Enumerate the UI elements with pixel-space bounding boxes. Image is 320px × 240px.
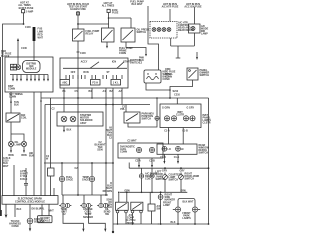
blower box bbox=[189, 24, 201, 33]
svg-text:ASSY: ASSY bbox=[80, 122, 87, 125]
label set timing connector bbox=[9, 93, 23, 99]
svg-text:B: B bbox=[13, 68, 15, 71]
lamp 2 bbox=[157, 28, 161, 32]
svg-text:PPL: PPL bbox=[120, 108, 125, 111]
svg-text:CLSTR: CLSTR bbox=[176, 114, 184, 117]
resistor block bbox=[48, 98, 55, 196]
label above key module bbox=[139, 57, 144, 65]
nodes y195 bbox=[77, 194, 107, 196]
label lamp A bbox=[169, 174, 183, 182]
LEFT x113 column labels bbox=[103, 182, 113, 193]
svg-text:LAMPS: LAMPS bbox=[182, 217, 191, 220]
label fuel pump prime bbox=[119, 47, 133, 55]
svg-text:SWITCH: SWITCH bbox=[137, 31, 147, 34]
cluster lamp 2 bbox=[171, 116, 176, 121]
svg-text:G GRN: G GRN bbox=[162, 107, 170, 110]
diag terminal 1 bbox=[136, 147, 141, 152]
label left of switch bbox=[165, 68, 176, 79]
wire bus y224 bbox=[113, 223, 159, 225]
ac relay box 1 bbox=[116, 202, 129, 213]
node bbox=[160, 191, 162, 193]
wire bbox=[149, 192, 151, 204]
wire bbox=[108, 13, 110, 29]
side marker circle C bbox=[158, 192, 163, 199]
label below lamps bbox=[8, 154, 26, 157]
ignition coil box bbox=[6, 113, 20, 122]
wires from relays to bus bbox=[118, 211, 152, 224]
terminal label box 2 bbox=[91, 80, 101, 86]
label oil pressure switch bbox=[137, 29, 150, 35]
svg-text:C1-B: C1-B bbox=[160, 156, 166, 159]
node bbox=[77, 23, 79, 25]
arrow bbox=[104, 229, 106, 232]
nodes bbox=[141, 192, 143, 194]
svg-text:C210: C210 bbox=[174, 93, 180, 96]
label HEI bbox=[29, 152, 34, 158]
lamp gen bbox=[21, 141, 26, 146]
dist connector box bbox=[38, 216, 53, 223]
svg-text:BLK: BLK bbox=[17, 208, 22, 211]
svg-text:IGN: IGN bbox=[112, 60, 117, 63]
label dimmer bbox=[200, 69, 210, 77]
svg-text:WHT: WHT bbox=[38, 37, 44, 40]
wire bbox=[160, 199, 162, 224]
label ac clutch diode bbox=[126, 214, 136, 225]
label HOT IN RUN bbox=[67, 3, 89, 11]
pin labels below switch bbox=[62, 90, 122, 93]
wire bbox=[10, 92, 12, 113]
wire into switch bbox=[125, 105, 127, 113]
label below circle C bbox=[163, 202, 172, 208]
wire bbox=[77, 101, 79, 195]
svg-text:ALL TIMES: ALL TIMES bbox=[102, 5, 115, 8]
svg-text:PPL: PPL bbox=[40, 208, 45, 211]
terminal label box 3 bbox=[111, 80, 121, 86]
ignition module blob bbox=[23, 61, 41, 73]
wire bbox=[194, 212, 196, 224]
relay circle 1 bbox=[139, 168, 143, 192]
wire bbox=[61, 182, 63, 195]
oil pressure switch box bbox=[121, 28, 135, 42]
labels below diag box bbox=[135, 160, 155, 163]
svg-text:SWITCH: SWITCH bbox=[199, 152, 209, 155]
nodes y224 bbox=[117, 223, 134, 225]
svg-text:BLK: BLK bbox=[29, 155, 34, 158]
label HOT AT ALL TIMES bbox=[18, 1, 34, 9]
wire bbox=[112, 88, 114, 224]
svg-text:COIL: COIL bbox=[21, 117, 27, 120]
label right of blower box bbox=[201, 25, 209, 36]
svg-text:BLK: BLK bbox=[107, 206, 112, 209]
label DIST bbox=[8, 85, 15, 91]
wire below switch bbox=[126, 42, 146, 54]
gauge circle left of cluster bbox=[155, 116, 159, 120]
starter motor box bbox=[57, 112, 103, 126]
svg-text:ST: ST bbox=[106, 71, 110, 74]
svg-text:CONN: CONN bbox=[8, 88, 15, 91]
lamp oil pressure bbox=[8, 141, 13, 146]
svg-text:LAMP: LAMP bbox=[163, 204, 170, 207]
svg-text:LAMP: LAMP bbox=[201, 33, 208, 36]
svg-text:C2 WHT: C2 WHT bbox=[127, 140, 137, 143]
solenoid coil circle 2 bbox=[70, 116, 76, 122]
label inside distributor bbox=[11, 64, 17, 70]
nodes on y163 bbox=[61, 162, 114, 164]
lamp A bbox=[163, 173, 168, 180]
dimmer switch box bbox=[187, 68, 198, 80]
svg-text:J K L: J K L bbox=[113, 82, 119, 85]
svg-text:WHT: WHT bbox=[48, 210, 54, 213]
mid labels bbox=[71, 71, 110, 74]
wire + arrow defog 2 bbox=[177, 154, 179, 161]
wire bbox=[193, 7, 195, 24]
wire bbox=[105, 88, 107, 195]
svg-text:BLK: BLK bbox=[14, 104, 19, 107]
svg-text:DK GRN: DK GRN bbox=[103, 190, 113, 193]
svg-text:BLK: BLK bbox=[171, 221, 176, 224]
svg-text:GAGE: GAGE bbox=[66, 179, 73, 182]
wire below knock bbox=[29, 224, 31, 228]
svg-text:SWITCH: SWITCH bbox=[185, 178, 195, 181]
wire bbox=[23, 13, 25, 24]
label between park lamps bbox=[182, 212, 191, 220]
svg-text:CONN: CONN bbox=[9, 96, 16, 99]
wire bbox=[91, 88, 93, 98]
wire stub bbox=[128, 163, 130, 169]
label lamp B bbox=[185, 173, 200, 181]
distributor assembly box bbox=[5, 57, 53, 92]
svg-text:LAMP: LAMP bbox=[15, 144, 22, 147]
label under circle 1 bbox=[61, 208, 68, 216]
switch arm diagonals bbox=[90, 62, 124, 69]
pickup coil circle bbox=[16, 65, 21, 70]
lamp 4 bbox=[167, 28, 171, 32]
labels below defogger bbox=[160, 156, 179, 159]
svg-text:OFF: OFF bbox=[71, 71, 76, 74]
fuel pump relay box bbox=[73, 29, 85, 41]
label relay circle 2 bbox=[156, 171, 166, 182]
svg-text:5 AMP: 5 AMP bbox=[26, 10, 34, 13]
label wire colors mid bbox=[20, 170, 28, 181]
wire gnd drop bbox=[5, 204, 7, 214]
wire right rail top bbox=[148, 6, 159, 70]
wire with capacitor ticks bbox=[24, 168, 28, 196]
diagnostic connector box bbox=[118, 143, 163, 158]
park neutral switch box bbox=[124, 112, 140, 123]
label right of cluster bbox=[203, 114, 212, 125]
wire bus bbox=[109, 17, 132, 19]
svg-text:GRN: GRN bbox=[180, 189, 186, 192]
wire bus y195 bbox=[62, 194, 108, 196]
fuse ECM B bbox=[22, 10, 34, 14]
wire with up arrow bbox=[17, 40, 19, 65]
label relay circle 1 bbox=[145, 173, 157, 181]
ground bbox=[29, 228, 31, 231]
junction nodes on bus bbox=[63, 97, 158, 105]
svg-text:HI: HI bbox=[181, 148, 184, 151]
label mid C2 block bbox=[94, 141, 106, 152]
inner bus bbox=[63, 67, 127, 69]
splice circle pair 2 bbox=[80, 195, 92, 208]
page edge blob bbox=[0, 210, 2, 216]
splice arrow bbox=[10, 100, 12, 103]
svg-text:FUSE: FUSE bbox=[112, 11, 119, 14]
wire with terminator bbox=[177, 46, 179, 58]
wire bus y163 bbox=[44, 162, 113, 164]
arrow stub bbox=[196, 52, 198, 56]
arrow bbox=[82, 229, 84, 232]
svg-text:WHT: WHT bbox=[3, 165, 9, 168]
wire drop 5 bbox=[48, 204, 50, 216]
label right of dashed box bbox=[178, 22, 194, 33]
wire + arrow below gen lamp bbox=[23, 147, 25, 151]
wire bbox=[177, 212, 179, 224]
svg-text:RELAY: RELAY bbox=[86, 33, 94, 36]
wire bbox=[91, 163, 93, 176]
cluster lamp 3 bbox=[183, 116, 188, 121]
wire bbox=[176, 98, 178, 104]
knock sensor circle bbox=[27, 218, 33, 224]
inner bus of distributor bbox=[10, 74, 48, 76]
blower lamp bbox=[191, 27, 195, 31]
wire bus y224 bbox=[158, 223, 209, 225]
wire bbox=[193, 33, 195, 46]
svg-text:C1-A: C1-A bbox=[164, 129, 170, 132]
svg-text:BLK WHT: BLK WHT bbox=[131, 3, 143, 6]
wire from dimmer bbox=[170, 80, 193, 98]
label AC/HTR fuse bbox=[162, 3, 179, 9]
node bbox=[169, 97, 171, 99]
svg-text:ACCY: ACCY bbox=[81, 60, 88, 63]
label oil lamp bbox=[15, 141, 22, 147]
wire bbox=[77, 11, 79, 29]
label right of box bbox=[130, 59, 141, 65]
svg-text:A/C HTR FUSE: A/C HTR FUSE bbox=[162, 6, 179, 9]
wire drop 4 bbox=[41, 204, 43, 216]
nodes on GRN bus bbox=[118, 192, 120, 194]
labels below cluster bbox=[164, 129, 188, 132]
wire from switch bbox=[128, 120, 157, 127]
svg-text:MODULE: MODULE bbox=[40, 219, 51, 222]
svg-text:GAGE: GAGE bbox=[82, 179, 89, 182]
wire bus y223 left bbox=[63, 208, 83, 229]
svg-text:FG H: FG H bbox=[92, 82, 98, 85]
label conn circle 2 bbox=[82, 176, 89, 182]
svg-text:SENDER: SENDER bbox=[83, 216, 93, 219]
svg-text:SWITCH: SWITCH bbox=[142, 118, 152, 121]
label TAN BLK bbox=[14, 101, 19, 107]
svg-text:MODULE: MODULE bbox=[26, 67, 37, 70]
wire bus top-left bbox=[3, 24, 24, 57]
svg-text:G GRY: G GRY bbox=[187, 107, 195, 110]
fusible link (thick bar) bbox=[33, 27, 36, 41]
svg-text:BLK WHT: BLK WHT bbox=[182, 201, 194, 204]
label left text block bbox=[1, 50, 12, 58]
svg-text:GAGES FUSE: GAGES FUSE bbox=[70, 8, 86, 11]
wire bus vertical bbox=[33, 92, 35, 196]
svg-text:C2-A: C2-A bbox=[135, 160, 141, 163]
wire + arrow diag 2 bbox=[151, 158, 153, 165]
label cluster center bbox=[176, 111, 184, 117]
instrument cluster box bbox=[160, 104, 201, 128]
wire bus y192.3 bbox=[120, 191, 187, 193]
label under circle 3 bbox=[104, 208, 111, 216]
wires into module top bbox=[53, 188, 55, 196]
wire cluster left tap bbox=[156, 98, 158, 116]
park lamp left bbox=[173, 207, 181, 212]
labels along top of switch bbox=[81, 60, 132, 63]
svg-text:GRY: GRY bbox=[162, 170, 167, 173]
svg-text:CONTROL (ESC) MODULE: CONTROL (ESC) MODULE bbox=[15, 200, 45, 203]
node bbox=[40, 100, 42, 102]
solenoid coil circle 1 bbox=[61, 116, 67, 122]
label knock sensor bbox=[34, 218, 44, 224]
instrument lamps dashed box bbox=[150, 22, 177, 39]
relay circle 2 bbox=[150, 168, 154, 192]
wire + arrow below oil lamp bbox=[10, 147, 12, 151]
park lamp arch wire bbox=[178, 199, 195, 207]
park lamp right bbox=[192, 207, 200, 212]
svg-text:ABC: ABC bbox=[62, 82, 67, 85]
wire bbox=[61, 163, 63, 176]
wire bus right top bbox=[171, 45, 195, 47]
label below drop 2 bbox=[9, 220, 21, 228]
contact ticks row bbox=[66, 75, 122, 79]
wire bus bbox=[11, 134, 24, 141]
cluster lamp 4 bbox=[190, 116, 195, 121]
svg-text:S206: S206 bbox=[97, 149, 103, 152]
wire bbox=[44, 105, 46, 196]
label inside diagnostic bbox=[120, 146, 135, 154]
label right of defogger bbox=[199, 144, 210, 155]
wire right rail bbox=[208, 98, 210, 224]
wire bus y223 right bbox=[89, 208, 106, 229]
label x113 upper stack bbox=[107, 127, 113, 140]
wire bbox=[130, 18, 132, 28]
lamp 3 bbox=[162, 28, 166, 32]
fuse gages bbox=[77, 12, 80, 15]
svg-text:BRN: BRN bbox=[21, 154, 26, 157]
svg-text:ACC IGN FUSE: ACC IGN FUSE bbox=[184, 6, 202, 9]
svg-text:C100: C100 bbox=[21, 47, 27, 50]
wire bus bbox=[78, 23, 109, 25]
wires lamps to bus bbox=[164, 179, 166, 192]
buzzer symbol bbox=[147, 73, 159, 79]
label park neutral bbox=[142, 113, 155, 121]
svg-text:CONN: CONN bbox=[120, 151, 127, 154]
wire + arrow below starter bbox=[63, 126, 65, 130]
label conn circle 1 bbox=[66, 176, 73, 182]
terminal label box 1 bbox=[60, 80, 70, 86]
svg-text:CONN: CONN bbox=[165, 76, 172, 79]
ac box 3 bbox=[148, 204, 161, 211]
svg-text:CONN: CONN bbox=[119, 52, 126, 55]
wire + arrow defog 1 bbox=[163, 154, 165, 161]
label left of x113 lower bbox=[106, 199, 112, 210]
ESC module box bbox=[2, 196, 58, 205]
node bbox=[108, 17, 110, 19]
svg-text:CONN: CONN bbox=[11, 225, 18, 228]
splice circle pair 3 bbox=[97, 195, 109, 208]
node bbox=[164, 167, 166, 169]
svg-text:CLSTR: CLSTR bbox=[203, 122, 211, 125]
label splice block bbox=[3, 157, 11, 168]
defog lamp 2 bbox=[176, 146, 184, 151]
lamp 1 bbox=[152, 28, 156, 32]
key warning module box bbox=[144, 70, 161, 83]
wire bus y168 bbox=[129, 167, 208, 169]
wire bbox=[91, 182, 93, 195]
ECM relay box bbox=[102, 28, 115, 42]
label ESC module bbox=[15, 197, 45, 203]
node bbox=[180, 167, 182, 169]
wire bus upper bbox=[41, 97, 209, 99]
fuse bbox=[107, 9, 119, 15]
node C100 bbox=[23, 23, 25, 25]
wire bus lower bbox=[45, 104, 150, 106]
ground bbox=[5, 215, 8, 219]
label circle C bbox=[165, 194, 176, 202]
wire bbox=[10, 122, 12, 134]
ground stub bbox=[112, 224, 114, 231]
svg-text:C1-A: C1-A bbox=[174, 156, 180, 159]
svg-text:D BLK: D BLK bbox=[20, 178, 28, 181]
splice circle pair 1 bbox=[59, 195, 71, 208]
wire drop 2 bbox=[14, 204, 16, 217]
wire below key module bbox=[146, 83, 170, 90]
wire bbox=[13, 165, 15, 196]
wire drop 2 into relay bbox=[126, 192, 128, 202]
label top right BLK bbox=[130, 1, 144, 7]
svg-text:C100: C100 bbox=[80, 52, 86, 55]
wire + arrow diag 1 bbox=[138, 158, 140, 165]
label HOT AT ALL TIMES 2 bbox=[102, 2, 115, 8]
diag terminal 2 bbox=[149, 147, 154, 152]
defogger box bbox=[157, 144, 197, 154]
svg-text:ECM B FUSE: ECM B FUSE bbox=[19, 7, 34, 10]
svg-text:SWITCH: SWITCH bbox=[200, 74, 210, 77]
wire bbox=[63, 88, 65, 112]
svg-text:SWITCH: SWITCH bbox=[169, 179, 179, 182]
svg-text:RUN: RUN bbox=[83, 71, 88, 74]
label C2 strip bbox=[46, 155, 50, 161]
pin ticks with arrows bbox=[12, 75, 49, 82]
wire from link down bbox=[33, 41, 35, 61]
wire bbox=[121, 88, 123, 105]
label starter bbox=[80, 114, 93, 125]
wire drop 1 into relay bbox=[118, 192, 120, 202]
svg-text:LO: LO bbox=[168, 148, 171, 151]
wire knock sensor bbox=[29, 204, 31, 218]
svg-text:GRN: GRN bbox=[124, 189, 130, 192]
svg-text:BLK: BLK bbox=[67, 129, 72, 132]
wire bbox=[169, 9, 171, 22]
wire + arrow below relay bbox=[106, 42, 108, 46]
wire bus vertical bbox=[40, 92, 42, 196]
defog lamp 1 bbox=[162, 146, 171, 151]
label IGN fuse bbox=[184, 3, 202, 9]
node bbox=[208, 167, 210, 169]
connector circle 2 bbox=[89, 176, 94, 181]
page edge line bbox=[0, 57, 2, 210]
label fusible link bbox=[38, 28, 44, 40]
wire bbox=[77, 41, 79, 101]
wire bbox=[170, 38, 172, 46]
ac relay box 2 bbox=[131, 202, 143, 213]
svg-text:COIL: COIL bbox=[145, 178, 151, 181]
wire left rail bbox=[2, 57, 4, 196]
cluster lamp 1 bbox=[164, 116, 169, 121]
